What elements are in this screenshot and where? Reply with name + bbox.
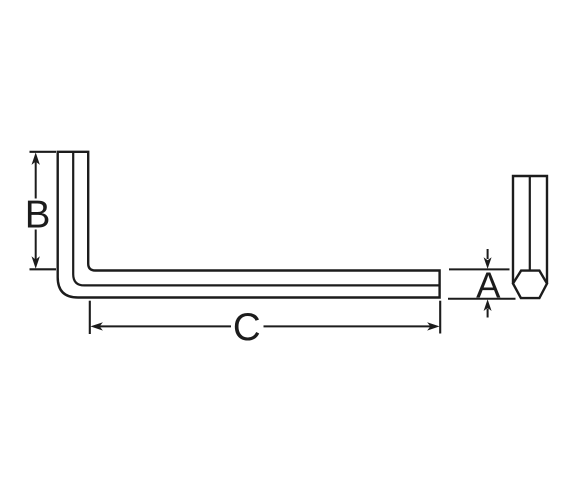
hex key L-shaped body outline (58, 152, 440, 298)
dimension A upper arrow shaft (487, 249, 489, 259)
dimension C right arrowhead (427, 322, 440, 330)
dimension B line lower segment (35, 230, 37, 262)
dimension B down arrowhead (32, 256, 40, 269)
svg-text:A: A (476, 265, 501, 306)
dimension C left extension line (89, 301, 91, 334)
dimension A top line (449, 268, 510, 270)
end-view facet inner line (529, 176, 531, 271)
hex end chamfer tip hexagon (513, 271, 547, 299)
dimension A bottom line (448, 298, 516, 300)
dimension C line right segment (264, 325, 432, 327)
dimension A lower arrow shaft (487, 309, 489, 318)
dimension C right extension line (439, 301, 441, 334)
dimension C line left segment (99, 325, 231, 327)
dimension B top extension tick (30, 151, 57, 153)
svg-text:B: B (25, 194, 51, 237)
dimension C left arrowhead (90, 322, 103, 330)
dimension B line upper segment (35, 160, 37, 199)
hex key end-view shaft (513, 176, 547, 284)
svg-text:C: C (233, 306, 261, 349)
dimension A up arrowhead (484, 299, 492, 311)
dimension B up arrowhead (32, 152, 40, 165)
dimension A down arrowhead (484, 257, 492, 269)
dimension B bottom extension tick (30, 268, 57, 270)
hex key facet inner line (73, 152, 439, 286)
